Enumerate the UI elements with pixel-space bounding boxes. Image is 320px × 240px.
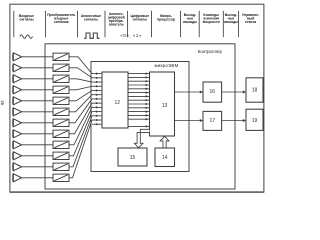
input stub/junction 3: [92, 81, 102, 83]
hollow arrow to block 15: [134, 129, 149, 148]
bus line 5: [128, 88, 150, 90]
hollow arrow from block 14: [160, 136, 169, 148]
wire triangle 11 to converter: [22, 166, 53, 168]
svg-text:Контроллер: Контроллер: [198, 49, 223, 54]
converter box 3: [53, 75, 69, 82]
bus line 9: [128, 103, 150, 105]
square pulse symbol: [84, 33, 100, 38]
input stub/junction 4: [92, 85, 102, 87]
wire converter 7 to block 12: [69, 99, 92, 123]
header labels: [19, 12, 259, 27]
sine wave symbol: [20, 35, 33, 38]
block 15 RAM: [118, 148, 147, 166]
input stub/junction 5: [92, 89, 102, 91]
wire triangle 12 to converter: [22, 177, 53, 179]
wire block 16 to block 18: [222, 91, 244, 93]
sensor triangle 11: [13, 163, 21, 171]
sensor triangle 7: [13, 119, 21, 127]
wire converter 5 to block 12: [69, 90, 92, 100]
wire triangle 9 to converter: [22, 144, 53, 146]
converter box 1: [53, 53, 69, 60]
svg-text:станок: станок: [245, 20, 257, 24]
microcomputer box: [91, 62, 189, 172]
bus line lower: [128, 125, 150, 127]
converter box 11: [53, 163, 69, 170]
bus line 12: [128, 114, 150, 116]
input stub/junction 10: [92, 111, 102, 113]
input stub/junction 7: [92, 98, 102, 100]
svg-text:19: 19: [252, 118, 258, 124]
wire converter 12 to block 12: [69, 120, 92, 178]
input stub/junction 6: [92, 94, 102, 96]
svg-text:сигналов: сигналов: [54, 20, 69, 24]
sensor triangle 6: [13, 108, 21, 116]
wire block 13 to block 17: [175, 120, 201, 122]
svg-text:16: 16: [210, 89, 216, 95]
sensor triangle 3: [13, 75, 21, 83]
converter box 12: [53, 174, 69, 181]
wire converter 8 to block 12: [69, 103, 92, 134]
svg-text:мощности: мощности: [203, 20, 220, 24]
svg-text:17: 17: [210, 118, 216, 124]
wire triangle 8 to converter: [22, 133, 53, 135]
converter box 10: [53, 152, 69, 159]
bus line 13: [128, 118, 150, 120]
bus line 4: [128, 84, 150, 86]
input stub/junction 13: [92, 123, 102, 125]
converter box 7: [53, 119, 69, 126]
wire converter 6 to block 12: [69, 95, 92, 112]
converter box 4: [53, 86, 69, 93]
converter box 2: [53, 64, 69, 71]
wire block 17 to block 19: [222, 120, 244, 122]
wire block 13 to block 16: [175, 91, 201, 93]
converter box 9: [53, 141, 69, 148]
block 16 output stage: [203, 82, 222, 102]
svg-text:18: 18: [252, 88, 258, 94]
wire converter 11 to block 12: [69, 116, 92, 167]
svg-text:микроЭВМ: микроЭВМ: [154, 63, 178, 68]
wire triangle 1 to converter: [22, 56, 53, 58]
bus line 1: [128, 73, 150, 75]
block 14 ROM: [155, 148, 175, 167]
wire converter 4 to block 12: [69, 86, 92, 90]
input stub/junction 8: [92, 102, 102, 104]
sensor triangle 5: [13, 97, 21, 105]
svg-text:сигналы: сигналы: [84, 17, 98, 21]
wire converter 10 to block 12: [69, 112, 92, 156]
sensor triangle 10: [13, 152, 21, 160]
wire converter 1 to block 12: [69, 57, 92, 74]
wire triangle 6 to converter: [22, 111, 53, 113]
converter box 5: [53, 97, 69, 104]
converter box 8: [53, 130, 69, 137]
input stub/junction 12: [92, 119, 102, 121]
svg-text:13: 13: [162, 103, 168, 109]
input stub/junction 11: [92, 115, 102, 117]
block 17 output stage: [203, 111, 222, 130]
wire triangle 7 to converter: [22, 122, 53, 124]
input stub/junction 2: [92, 77, 102, 79]
wire converter 9 to block 12: [69, 107, 92, 144]
svg-text:зователь: зователь: [109, 23, 124, 27]
header column separators: [14, 11, 239, 37]
sensor triangle 4: [13, 86, 21, 94]
svg-text:82: 82: [0, 100, 4, 105]
svg-text:«0», «1»: «0», «1»: [120, 33, 141, 38]
wire triangle 5 to converter: [22, 100, 53, 102]
svg-text:каскады: каскады: [224, 20, 238, 24]
svg-text:14: 14: [162, 155, 168, 161]
wire converter 3 to block 12: [69, 79, 92, 82]
sensor triangle 12: [13, 174, 21, 182]
wire triangle 2 to converter: [22, 67, 53, 69]
bus line 3: [128, 80, 150, 82]
sensor triangle 2: [13, 64, 21, 72]
sensor triangle 1: [13, 53, 21, 61]
svg-text:15: 15: [130, 155, 136, 161]
sensor triangle 9: [13, 141, 21, 149]
bus line 8: [128, 99, 150, 101]
block 13 microprocessor: [150, 72, 175, 136]
converter box 6: [53, 108, 69, 115]
wire triangle 10 to converter: [22, 155, 53, 157]
svg-text:сигналы: сигналы: [19, 17, 33, 21]
bus line 6: [128, 92, 150, 94]
figure border: [10, 4, 264, 192]
bus line 11: [128, 111, 150, 113]
bus line 10: [128, 107, 150, 109]
block 19: [246, 109, 263, 130]
wire converter 2 to block 12: [69, 68, 92, 78]
svg-text:каскады: каскады: [183, 20, 197, 24]
input stub/junction 9: [92, 106, 102, 108]
bus line 2: [128, 76, 150, 78]
svg-text:сигналы: сигналы: [133, 17, 147, 21]
wire triangle 4 to converter: [22, 89, 53, 91]
controller box: [45, 44, 235, 189]
sensor triangle 8: [13, 130, 21, 138]
wire triangle 3 to converter: [22, 78, 53, 80]
input stub/junction 1: [92, 73, 102, 75]
svg-text:12: 12: [115, 100, 121, 106]
bus line 7: [128, 95, 150, 97]
border bottom emphasis: [10, 191, 265, 193]
svg-text:процессор: процессор: [157, 17, 175, 21]
block 18: [246, 78, 263, 102]
block 12 input interface: [102, 72, 128, 128]
